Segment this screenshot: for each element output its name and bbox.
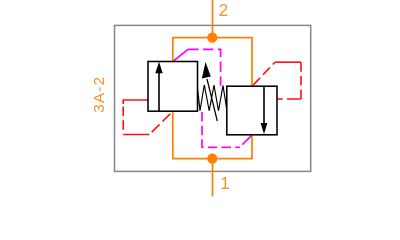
drain line left (red) (123, 100, 172, 135)
wire: port 1 vertical line (212, 159, 214, 197)
right flow path arrow (down) (261, 86, 268, 134)
pilot line upper (magenta) (173, 49, 221, 85)
pilot line lower (magenta) (202, 112, 240, 147)
valve element right square (227, 86, 277, 135)
valve element left square (148, 62, 198, 112)
node: junction dot bottom (207, 154, 217, 164)
wire: bottom rail orange (173, 111, 252, 158)
enclosure boundary box (115, 25, 311, 171)
wire: port 2 vertical line (212, 0, 214, 38)
spring (198, 85, 227, 111)
drain line right (red) (253, 62, 301, 99)
svg-text:2: 2 (219, 0, 229, 20)
svg-text:1: 1 (220, 173, 230, 193)
left flow path arrow (up) (155, 62, 162, 111)
spring adjustment arrow (202, 62, 218, 121)
node: junction dot top (207, 33, 217, 43)
svg-text:3A-2: 3A-2 (91, 76, 108, 113)
wire: top rail orange (173, 38, 252, 87)
